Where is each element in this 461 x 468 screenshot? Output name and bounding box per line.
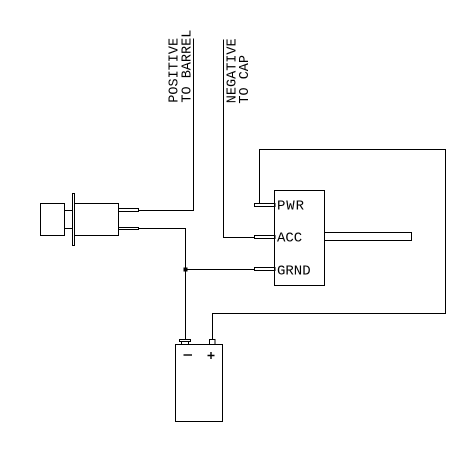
- barrel jack J1 body: [75, 204, 119, 236]
- barrel jack J1 neck: [65, 211, 73, 229]
- cable stub on right of module: [325, 233, 412, 241]
- battery positive terminal cap: [210, 340, 216, 345]
- wire: negative lead down to ACC pin: [224, 40, 255, 238]
- svg-text:PWR: PWR: [277, 199, 305, 215]
- svg-text:TO CAP: TO CAP: [238, 55, 253, 104]
- wire: tip pin to positive lead (up): [139, 39, 194, 211]
- wire: junction to GRND pin: [186, 269, 255, 271]
- battery BT1 body: [176, 345, 223, 422]
- pin PWR: [255, 204, 276, 207]
- junction: ground node: [184, 268, 187, 271]
- svg-text:GRND: GRND: [277, 264, 311, 280]
- wire: sleeve pin down to battery negative: [139, 229, 186, 340]
- pin GRND: [255, 268, 276, 271]
- barrel jack J1 tip pin: [119, 209, 139, 212]
- battery plus symbol: [208, 352, 215, 359]
- wire: PWR pin loop to battery positive: [213, 150, 446, 340]
- svg-text:ACC: ACC: [277, 231, 302, 247]
- battery negative terminal cap: [180, 340, 191, 342]
- pin ACC: [255, 236, 276, 239]
- barrel jack J1 sleeve pin: [119, 228, 139, 230]
- battery minus symbol: [184, 354, 193, 356]
- barrel jack J1 mounting flange: [73, 194, 75, 246]
- svg-text:TO BARREL: TO BARREL: [181, 30, 196, 103]
- module U1 box: [275, 191, 325, 286]
- barrel jack J1 knob: [41, 204, 65, 236]
